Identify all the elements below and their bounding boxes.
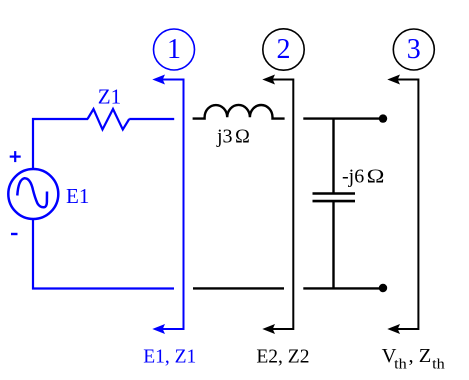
wire bottom middle black xyxy=(193,287,284,289)
wire top left vertical xyxy=(32,118,34,170)
capacitor bottom stem xyxy=(332,202,334,289)
plus terminal label xyxy=(10,151,21,162)
wire source bottom vertical xyxy=(32,220,34,290)
label j3 ohm xyxy=(216,126,250,148)
svg-text:Ω: Ω xyxy=(235,126,250,148)
wire bottom right black xyxy=(303,287,382,289)
capacitor top stem xyxy=(332,119,334,193)
junction dot bottom xyxy=(379,284,387,292)
cut line 1 bracket with arrows xyxy=(152,75,183,335)
wire bottom blue xyxy=(32,287,174,289)
resistor Z1 xyxy=(88,109,130,130)
svg-text:1: 1 xyxy=(167,34,181,65)
svg-text:2: 2 xyxy=(277,34,291,65)
voltage source E1 xyxy=(8,169,58,219)
cut line 3 bracket with arrows xyxy=(387,75,418,335)
svg-text:Z1: Z1 xyxy=(98,84,121,108)
svg-text:E1: E1 xyxy=(66,184,89,208)
inductor j3 ohm xyxy=(193,105,285,119)
minus terminal label xyxy=(11,233,18,235)
capacitor -j6 ohm plates xyxy=(313,194,356,202)
junction dot top xyxy=(379,114,387,122)
wire cut 2 to top node xyxy=(303,117,382,119)
node 2 circle xyxy=(263,29,304,70)
svg-text:j3: j3 xyxy=(216,126,233,148)
cut line 2 bracket with arrows xyxy=(262,75,293,335)
svg-text:Ω: Ω xyxy=(367,166,385,188)
svg-text:E2, Z2: E2, Z2 xyxy=(256,347,309,368)
node 3 circle xyxy=(393,29,434,70)
wire top to resistor xyxy=(32,118,88,120)
label -j6 ohm xyxy=(342,166,385,188)
svg-text:Vth, Zth: Vth, Zth xyxy=(382,345,446,372)
wire resistor to cut 1 xyxy=(129,118,174,120)
node 1 circle xyxy=(154,29,195,70)
svg-text:-j6: -j6 xyxy=(342,166,364,188)
svg-text:E1, Z1: E1, Z1 xyxy=(143,347,196,368)
svg-text:3: 3 xyxy=(407,34,421,65)
